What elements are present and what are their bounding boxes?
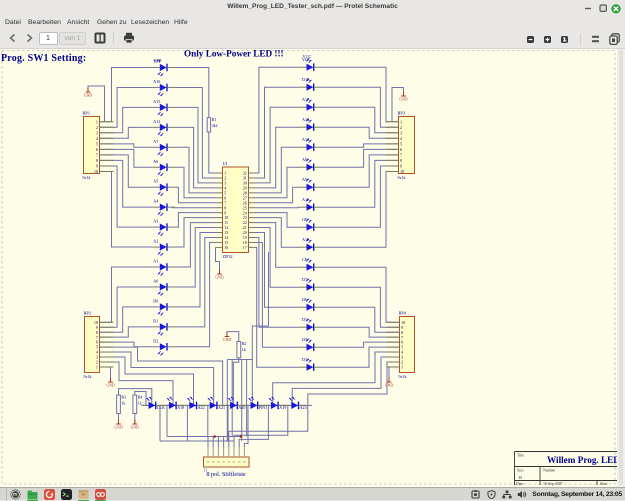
svg-text:D15: D15 xyxy=(302,77,309,82)
LED diode A23 (bottom row) xyxy=(284,397,306,410)
svg-text:D5: D5 xyxy=(302,317,307,322)
svg-text:3k2: 3k2 xyxy=(212,123,218,128)
zoom in button xyxy=(544,36,551,43)
LED diode A21 (bottom row) xyxy=(203,397,225,410)
LED diode OE (right column) xyxy=(300,217,322,231)
svg-text:RP3: RP3 xyxy=(398,111,406,116)
wire U1 pin24 to LED OE xyxy=(256,213,300,228)
wire connector feed xyxy=(223,437,225,448)
ground below R4 xyxy=(131,420,139,430)
svg-text:GND: GND xyxy=(223,338,231,342)
wire RP3 pin5 to LED A13 xyxy=(321,144,398,147)
svg-text:A17: A17 xyxy=(302,97,309,102)
LED diode A0 (left column) xyxy=(153,278,175,295)
svg-text:OE: OE xyxy=(302,217,308,222)
wire RP1 pin4 to LED A12 xyxy=(100,127,153,138)
junction dot xyxy=(240,435,243,438)
resistor R1 3k2 xyxy=(207,117,217,132)
sidebar icon xyxy=(94,32,106,44)
wire U1 pin19 to LED D5 xyxy=(256,237,300,327)
wire node tap to bus A xyxy=(159,405,161,441)
svg-text:Title: Title xyxy=(517,454,524,458)
wire LED A0 to U1 pin12 xyxy=(174,228,215,287)
ground at U1 pin16 xyxy=(215,270,223,280)
svg-text:CE: CE xyxy=(302,257,308,262)
svg-text:GND: GND xyxy=(385,384,393,388)
svg-text:D7: D7 xyxy=(302,277,307,282)
svg-text:6: 6 xyxy=(400,147,402,152)
LED diode A16 (left column) xyxy=(153,79,175,96)
svg-text:VPP: VPP xyxy=(154,58,162,63)
svg-text:ZIF32: ZIF32 xyxy=(223,254,233,259)
LED diode A11 (right column) xyxy=(300,197,322,211)
wire RP1 pin1 hook to ground xyxy=(88,86,105,122)
svg-text:1k: 1k xyxy=(242,347,246,352)
wire right tap nested 4 xyxy=(229,405,308,447)
LED diode A13 (right column) xyxy=(300,137,322,151)
ground below RP4 xyxy=(385,378,393,388)
wire LED A12 to U1 pin4 xyxy=(174,127,215,188)
wire RP2 pin1 to ground xyxy=(100,367,111,382)
wire RP2 pin2 bus to node A18 xyxy=(100,362,174,405)
svg-text:1: 1 xyxy=(96,365,98,370)
resistor R2 1k xyxy=(237,341,246,358)
svg-text:5: 5 xyxy=(400,141,402,146)
svg-text:GND: GND xyxy=(106,384,114,388)
svg-text:Only Low-Power LED !!!: Only Low-Power LED !!! xyxy=(184,49,284,58)
svg-text:RP4: RP4 xyxy=(399,311,407,316)
title block xyxy=(515,452,625,487)
wire LED D0 to U1 pin13 xyxy=(174,233,215,307)
wire U1 pin26 to LED A9 xyxy=(256,187,300,203)
wire connector feed xyxy=(207,437,209,448)
wire LED A4 to U1 pin8 xyxy=(173,206,216,209)
wire R3 top to node CLK xyxy=(119,389,152,406)
wire connector feed xyxy=(217,437,219,448)
wire LED A15 to U1 pin3 xyxy=(174,107,215,183)
svg-text:Size: Size xyxy=(517,469,524,473)
svg-text:R4: R4 xyxy=(138,395,143,400)
resistor R4 1k xyxy=(133,395,142,414)
svg-text:D4: D4 xyxy=(302,337,307,342)
wire RP3 pin6 to LED A8 xyxy=(321,149,398,167)
svg-text:8: 8 xyxy=(400,158,402,163)
LED diode D3 (right column) xyxy=(300,357,322,371)
LED diode VCC (right column) xyxy=(300,57,322,71)
ground at RP3 xyxy=(399,92,407,102)
wire LED A16 to U1 pin2 xyxy=(174,87,215,178)
wire U1 area drop to node A19 xyxy=(252,252,268,405)
svg-text:A13: A13 xyxy=(302,137,309,142)
wire RP1 pin6 to LED A6 xyxy=(100,149,153,167)
svg-text:5: 5 xyxy=(96,141,98,146)
svg-text:3: 3 xyxy=(96,130,98,135)
wire node R2 top to ground hook xyxy=(227,332,239,342)
tray: window-list icon xyxy=(471,490,480,499)
maximize button xyxy=(599,4,608,13)
svg-text:GND: GND xyxy=(131,426,139,430)
svg-text:R3: R3 xyxy=(121,395,126,400)
wire U1 pin21 to LED D7 xyxy=(256,228,300,288)
svg-text:A4: A4 xyxy=(153,199,158,204)
net label VCC xyxy=(303,54,312,59)
svg-text:U1: U1 xyxy=(223,161,228,166)
LED diode A14 (right column) xyxy=(300,117,322,131)
wire LED A7 to U1 pin5 xyxy=(174,147,215,193)
wire RP4 pin4 bus to node A23 xyxy=(273,352,400,405)
wire RP3 pin3 to LED A17 xyxy=(321,107,398,133)
wire VPP LED through R1 to U1 pin1 xyxy=(174,68,215,174)
wire RP2 pin4 bus to node A21 xyxy=(100,352,214,405)
wire RP3 pin8 to LED A11 xyxy=(321,160,398,207)
wire U1 pin31 to LED D15 xyxy=(256,87,300,178)
svg-text:A15: A15 xyxy=(153,99,160,104)
LED diode CLK (bottom row) xyxy=(142,397,166,410)
LED diode A4 (left column) xyxy=(153,199,175,216)
svg-text:RP1: RP1 xyxy=(83,111,91,116)
wire RP2 pin3 bus to node A22 xyxy=(100,357,194,405)
svg-text:8 pol. Stiftleiste: 8 pol. Stiftleiste xyxy=(206,471,246,478)
connector J1 8 pol. Stiftleiste xyxy=(204,447,250,478)
svg-text:1k: 1k xyxy=(121,401,125,406)
wire LED D1 to U1 pin14 xyxy=(174,237,215,326)
svg-text:A14: A14 xyxy=(302,117,309,122)
svg-text:9x1k: 9x1k xyxy=(83,175,91,180)
wire RP2 pin8 to LED D0 xyxy=(100,307,153,332)
pages icon xyxy=(609,33,620,45)
svg-text:A8: A8 xyxy=(302,157,307,162)
LED diode A10 (right column) xyxy=(300,237,322,251)
wire RP4 pin5 to LED D3 xyxy=(321,347,399,367)
LED diode A12 (left column) xyxy=(153,119,175,136)
resistor network RP2 9x1k xyxy=(84,311,114,380)
svg-text:1k: 1k xyxy=(138,401,142,406)
wire LED A2 to U1 pin10 xyxy=(174,218,215,247)
svg-text:1: 1 xyxy=(401,365,403,370)
LED diode A9 (right column) xyxy=(300,177,322,191)
svg-text:2: 2 xyxy=(96,125,98,130)
svg-text:2: 2 xyxy=(400,125,402,130)
wire U1 pin29 to LED A14 xyxy=(256,127,300,188)
svg-text:D1: D1 xyxy=(153,318,158,323)
close button xyxy=(611,4,622,15)
resistor network RP4 9x1k xyxy=(387,311,415,380)
zoom out button xyxy=(527,36,534,43)
svg-text:3: 3 xyxy=(400,130,402,135)
svg-text:7: 7 xyxy=(96,152,98,157)
svg-text:A9: A9 xyxy=(302,177,307,182)
LED diode A8 (right column) xyxy=(300,157,322,171)
LED diode D1 (left column) xyxy=(153,318,175,335)
ground below RP2 xyxy=(106,378,114,388)
svg-text:6: 6 xyxy=(96,147,98,152)
wire LED A1 to U1 pin11 xyxy=(174,223,215,267)
tray: volume icon xyxy=(517,490,527,499)
print icon xyxy=(123,32,135,44)
wire U1 pin17 to LED D3 xyxy=(256,247,300,367)
wire RP1 pin3 to LED A15 xyxy=(100,107,153,132)
wire LED D2 to U1 pin15 xyxy=(174,242,215,346)
menu bar xyxy=(0,15,625,28)
wire RP4 pin1 to ground xyxy=(389,367,400,382)
LED diode D0 (left column) xyxy=(153,298,175,315)
svg-text:D2: D2 xyxy=(153,338,158,343)
svg-text:GND: GND xyxy=(399,98,407,102)
wire LED A5 to U1 pin7 xyxy=(174,187,215,203)
wire RP4 pin7 to LED D5 xyxy=(321,327,399,337)
LED diode A3 (left column) xyxy=(153,219,175,236)
LED diode D7 (right column) xyxy=(300,277,322,291)
wire node tap xyxy=(207,405,209,436)
wire RP4 pin10 to LED CE xyxy=(321,267,399,322)
text: Only Low-Power LED heading xyxy=(184,48,284,58)
mint menu icon xyxy=(10,489,21,500)
wire U1 pin30 to LED A17 xyxy=(256,107,300,183)
LED diode A2 (left column) xyxy=(153,239,175,256)
LED diode D4 (right column) xyxy=(300,337,322,351)
wire R3 bottom to ground xyxy=(118,414,120,425)
wire RP3 pin1 hook to ground xyxy=(392,88,404,122)
svg-text:A0: A0 xyxy=(153,278,158,283)
svg-text:16: 16 xyxy=(224,245,228,250)
LED diode D6 (right column) xyxy=(300,297,322,311)
wire LED A3 to U1 pin9 xyxy=(174,213,215,227)
svg-text:GND: GND xyxy=(215,276,223,280)
LED diode A20 (bottom row) xyxy=(223,397,245,410)
LED diode A7 (left column) xyxy=(153,139,175,156)
tray: shield icon xyxy=(487,490,496,499)
wire node tap xyxy=(186,405,188,441)
svg-text:A6: A6 xyxy=(153,159,158,164)
wire LED A6 to U1 pin6 xyxy=(174,167,215,198)
wire U1 pin18 to LED D4 xyxy=(256,242,300,347)
LED diode A18 (bottom row) xyxy=(162,397,184,410)
svg-text:D6: D6 xyxy=(302,297,307,302)
wire node tap xyxy=(227,405,229,441)
svg-text:8: 8 xyxy=(96,158,98,163)
wire connector feed drop xyxy=(246,360,248,437)
svg-text:A11: A11 xyxy=(302,197,309,202)
wire R4 top feed xyxy=(135,392,146,406)
minimize button xyxy=(584,7,592,11)
svg-text:1: 1 xyxy=(400,119,402,124)
wire right tap nested 3 xyxy=(234,405,288,447)
svg-text:Prog. SW1 Setting:: Prog. SW1 Setting: xyxy=(1,53,86,64)
wire RP4 pin3 bus to row end xyxy=(292,357,399,405)
LED diode CE (right column) xyxy=(300,257,322,271)
svg-text:9x1k: 9x1k xyxy=(398,175,406,180)
wire RP3 pin10 to LED A10 xyxy=(321,171,398,247)
svg-text:VCC: VCC xyxy=(303,54,312,59)
wire RP2 pin7 to LED D1 xyxy=(100,327,153,337)
junction dot xyxy=(213,435,216,438)
wire RP4 pin9 to LED D7 xyxy=(321,287,399,327)
svg-text:A3: A3 xyxy=(153,219,158,224)
svg-text:A1: A1 xyxy=(153,259,158,264)
xreader icon xyxy=(95,489,106,500)
wire RP1 pin7 to LED A5 xyxy=(100,155,153,187)
zoom 1:1 button xyxy=(561,36,568,43)
LED diode A15 (left column) xyxy=(153,99,175,116)
wire bus B horizontal xyxy=(160,440,234,442)
wire RP4 pin6 to LED D4 xyxy=(321,342,399,347)
LED diode A22 (bottom row) xyxy=(182,397,204,410)
ground below R3 xyxy=(114,420,122,430)
svg-text:10: 10 xyxy=(400,169,404,174)
svg-text:16-Sep-2007: 16-Sep-2007 xyxy=(543,482,563,486)
tray: network icon xyxy=(502,490,512,499)
wire right tap nested 2 xyxy=(239,405,268,447)
ground at RP1 xyxy=(84,88,92,98)
svg-text:R1: R1 xyxy=(212,117,217,122)
wire U1 pin32 to LED VCC xyxy=(256,67,300,173)
svg-text:A2: A2 xyxy=(153,239,158,244)
LED diode D15 (right column) xyxy=(300,77,322,91)
wire RP2 pin10 to LED A1 xyxy=(100,267,153,322)
svg-text:GND: GND xyxy=(84,94,92,98)
LED diode A17 (right column) xyxy=(300,97,322,111)
svg-text:RP2: RP2 xyxy=(84,311,92,316)
wire RP2 pin9 to LED A0 xyxy=(100,287,153,327)
LED diode PIN1 (bottom row) xyxy=(244,397,268,410)
wire RP1 pin9 to LED A3 xyxy=(100,166,153,227)
wire connector feed xyxy=(212,437,214,448)
text: Prog. SW1 Setting heading xyxy=(1,53,86,64)
LED diode VPP (left column) xyxy=(153,59,175,76)
svg-text:Number: Number xyxy=(543,469,556,473)
resistor network RP3 9x1k xyxy=(386,111,415,181)
wire connector feed comb header xyxy=(227,359,252,361)
svg-text:1: 1 xyxy=(96,119,98,124)
LED diode D5 (right column) xyxy=(300,317,322,331)
svg-text:17: 17 xyxy=(243,245,247,250)
terminal icon xyxy=(61,489,72,500)
resistor R3 1k xyxy=(117,395,126,414)
svg-text:A7: A7 xyxy=(153,139,158,144)
wire bus A horizontal xyxy=(167,436,241,438)
LED diode A1 (left column) xyxy=(153,259,175,276)
wire R4 bottom to ground xyxy=(134,414,136,425)
svg-text:D0: D0 xyxy=(153,298,158,303)
update manager icon xyxy=(44,489,55,500)
wire RP3 pin9 to LED OE xyxy=(321,166,398,227)
wire bottom LED row chain xyxy=(142,404,313,406)
svg-text:7: 7 xyxy=(400,152,402,157)
LED diode A5 (left column) xyxy=(153,179,175,196)
wire RP1 pin8 to LED A4 xyxy=(100,160,153,207)
svg-text:A5: A5 xyxy=(153,179,158,184)
svg-text:Date:: Date: xyxy=(516,482,524,486)
wire U1 pin20 to LED D6 xyxy=(256,233,300,308)
wire U1 pin28 to LED A13 xyxy=(256,147,300,193)
wire U1 pin25 to LED A11 xyxy=(256,206,300,209)
svg-text:A23: A23 xyxy=(300,405,307,410)
wire RP1 pin5 to LED A7 xyxy=(100,144,153,147)
svg-text:B: B xyxy=(519,475,522,480)
wire RP4 pin8 to LED D6 xyxy=(321,307,399,332)
window title bar xyxy=(0,0,625,15)
svg-text:Willem Prog. LED Te: Willem Prog. LED Te xyxy=(547,455,617,465)
wire RP1 pin2 to LED A16 xyxy=(100,87,153,127)
svg-text:A12: A12 xyxy=(153,119,160,124)
taskbar xyxy=(0,487,625,500)
wire RP2 pin6 to LED D2 xyxy=(100,342,153,347)
wire RP3 pin7 to LED A9 xyxy=(321,155,398,187)
wire RP4 pin2 bus to row end node xyxy=(308,362,400,405)
svg-text:R2: R2 xyxy=(242,341,247,346)
LED diode A19 (bottom row) xyxy=(264,397,286,410)
wire U1 pin27 to LED A8 xyxy=(256,167,300,198)
ground at R2 xyxy=(223,332,231,342)
svg-text:Shee: Shee xyxy=(600,482,608,486)
wire RP3 pin1 to LED VCC xyxy=(321,67,398,122)
wire RP3 pin4 to LED A14 xyxy=(321,127,398,138)
wire connector feed drop xyxy=(241,360,243,442)
wire node tap to bus A2 xyxy=(166,405,168,436)
svg-text:9x1k: 9x1k xyxy=(84,374,92,379)
svg-text:D3: D3 xyxy=(302,357,307,362)
wire right tap nested 1 xyxy=(244,405,248,447)
wire RP1 pin10 to LED A2 xyxy=(100,171,153,247)
svg-text:10: 10 xyxy=(94,169,98,174)
IC U1 ZIF32 socket xyxy=(216,161,256,259)
svg-text:A10: A10 xyxy=(302,237,309,242)
archive icon xyxy=(78,489,89,500)
svg-text:GND: GND xyxy=(114,426,122,430)
wire RP1 pin1 to LED VPP xyxy=(100,68,153,122)
net label VPP xyxy=(154,58,162,63)
wire R2 bottom staircase to node PIN1 xyxy=(233,358,238,406)
resistor network RP1 9x1k xyxy=(83,111,114,181)
wire U1 pin22 to LED CE xyxy=(256,223,300,268)
svg-text:9: 9 xyxy=(400,164,402,169)
wire RP3 pin2 to LED D15 xyxy=(321,87,398,127)
wire RP2 pin5 bus to node A20 xyxy=(100,347,223,405)
svg-text:9: 9 xyxy=(96,164,98,169)
wire U1 pin23 to LED A10 xyxy=(256,218,300,248)
file manager icon xyxy=(27,490,38,500)
forward button xyxy=(25,33,34,43)
wire connector feed drop xyxy=(231,360,233,437)
toolbar xyxy=(0,28,625,49)
LED diode D2 (left column) xyxy=(153,338,175,355)
back button xyxy=(8,33,17,43)
LED diode A6 (left column) xyxy=(153,159,175,176)
wire connector feed drop xyxy=(226,360,228,442)
wire U1 pin16 to ground xyxy=(216,247,220,274)
svg-text:9x1k: 9x1k xyxy=(399,374,407,379)
fit icon xyxy=(591,35,600,44)
svg-text:A16: A16 xyxy=(153,79,160,84)
